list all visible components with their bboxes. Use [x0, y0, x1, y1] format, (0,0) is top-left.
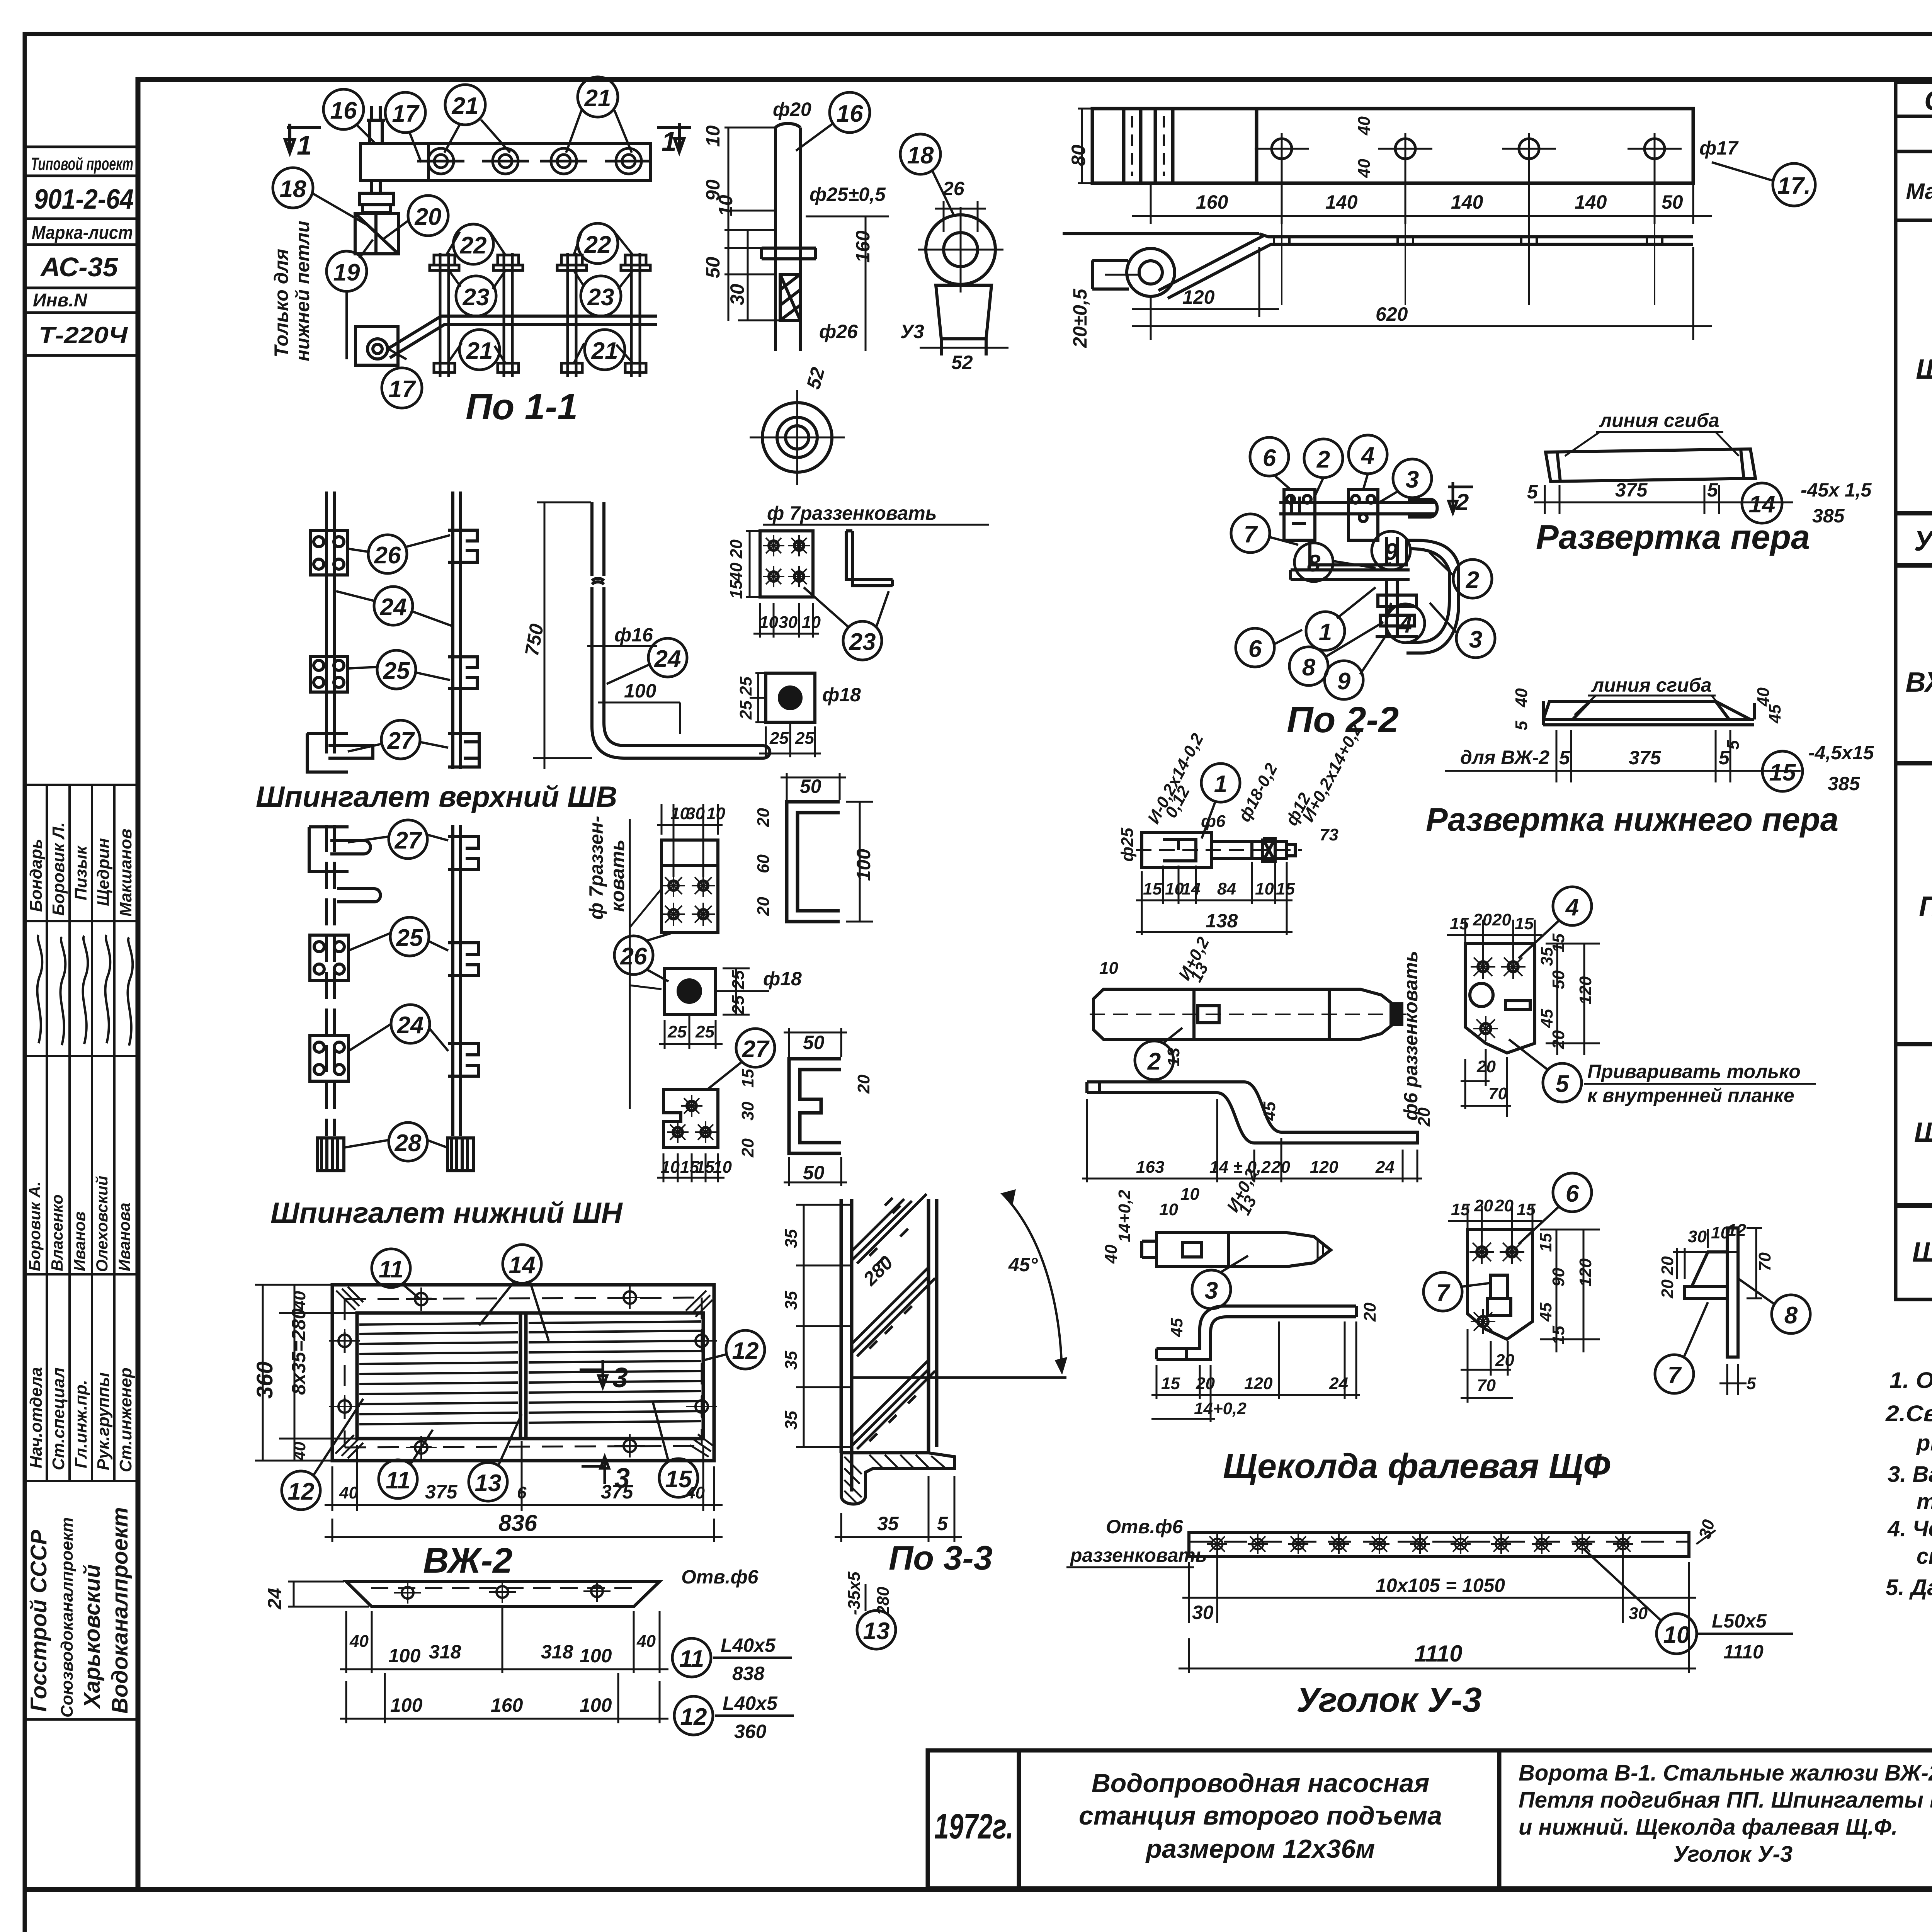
flat bar item 11 below panel — [346, 1582, 660, 1607]
lower hinge assembly — [355, 316, 657, 365]
svg-text:40: 40 — [636, 1632, 656, 1651]
sidebar rotated titles row — [27, 1367, 135, 1472]
svg-text:Спецификация стали на 1 штуку: Спецификация стали на 1 штуку каждой мар… — [1924, 85, 1932, 116]
svg-text:линия сгиба: линия сгиба — [1591, 674, 1712, 696]
section mark 1 right — [657, 123, 691, 152]
svg-text:50: 50 — [803, 1032, 825, 1053]
svg-text:25: 25 — [667, 1022, 687, 1041]
section mark 2 right — [1448, 482, 1473, 513]
svg-text:20: 20 — [1492, 910, 1511, 929]
svg-text:L50х5: L50х5 — [1712, 1610, 1767, 1632]
svg-text:Отв.ф6: Отв.ф6 — [681, 1566, 759, 1588]
ShN E-channel — [789, 1059, 841, 1153]
svg-text:11: 11 — [379, 1256, 403, 1283]
svg-text:Пизык: Пизык — [71, 845, 90, 900]
flat bar dims — [340, 1607, 668, 1723]
left sidebar stamp table — [25, 147, 138, 355]
svg-text:Водоканалпроект: Водоканалпроект — [107, 1507, 133, 1714]
title block grid — [928, 1750, 1932, 1888]
svg-text:5: 5 — [1719, 747, 1730, 769]
po 3-3 left dims — [796, 1205, 852, 1447]
svg-text:раззенковать: раззенковать — [1070, 1544, 1207, 1566]
ShN black dot plate — [665, 968, 769, 1043]
svg-text:120: 120 — [1244, 1374, 1273, 1393]
svg-text:3: 3 — [1205, 1277, 1218, 1304]
svg-text:ВЖ-2: ВЖ-2 — [423, 1541, 512, 1580]
svg-text:45: 45 — [1536, 1303, 1555, 1322]
svg-text:По 3-3: По 3-3 — [889, 1539, 993, 1577]
svg-text:100: 100 — [580, 1645, 612, 1667]
svg-text:1. Отверстия ф 6мм сверлёные,: 1. Отверстия ф 6мм сверлёные, раззенкова… — [1889, 1368, 1932, 1393]
pin and nut below bar — [355, 180, 398, 254]
svg-text:8: 8 — [1302, 654, 1316, 681]
svg-text:20: 20 — [854, 1075, 873, 1094]
svg-text:10х105 = 1050: 10х105 = 1050 — [1376, 1575, 1505, 1596]
svg-text:375: 375 — [1629, 747, 1662, 769]
sidebar rotated signature scribbles — [37, 935, 133, 1046]
750 dim — [533, 502, 592, 769]
svg-text:ШН: ШН — [1912, 1237, 1932, 1268]
svg-text:5: 5 — [1556, 1071, 1570, 1097]
svg-text:620: 620 — [1376, 303, 1408, 325]
svg-text:ф6: ф6 — [1201, 812, 1226, 831]
svg-text:Петля подгибная ПП. Шпингалет: Петля подгибная ПП. Шпингалеты верхний — [1519, 1787, 1932, 1813]
strip slots on side view — [1274, 216, 1662, 305]
dim 120 and 620 — [1132, 247, 1712, 340]
svg-text:25: 25 — [729, 970, 748, 990]
svg-text:12: 12 — [680, 1704, 707, 1730]
svg-text:140: 140 — [1451, 191, 1483, 213]
svg-text:20: 20 — [1196, 1374, 1215, 1393]
po 2-2 lower subassembly — [1291, 537, 1459, 653]
VZh-2 balloons — [282, 1245, 765, 1510]
marka column labels — [1906, 354, 1932, 1268]
svg-text:ковать: ковать — [607, 840, 628, 912]
svg-text:45: 45 — [1260, 1102, 1279, 1121]
svg-text:12: 12 — [732, 1338, 759, 1364]
svg-text:4. Чертеж заимствован из т: 4. Чертеж заимствован из типового проект… — [1887, 1516, 1932, 1541]
pin detail dim lines — [724, 128, 889, 351]
svg-text:14+0,2: 14+0,2 — [1115, 1190, 1134, 1242]
svg-text:45: 45 — [1765, 704, 1784, 724]
razvertka nizhnego pera — [1543, 701, 1754, 725]
svg-text:ВЖ-2: ВЖ-2 — [1906, 667, 1932, 698]
svg-text:360: 360 — [252, 1361, 277, 1399]
svg-text:120: 120 — [1576, 1258, 1595, 1287]
svg-text:15: 15 — [1143, 879, 1162, 898]
svg-text:20±0,5: 20±0,5 — [1069, 288, 1091, 348]
svg-text:1: 1 — [662, 126, 677, 156]
svg-text:40: 40 — [1754, 687, 1773, 707]
VZh-2 louver panel — [332, 1285, 714, 1461]
svg-text:15: 15 — [1769, 759, 1796, 786]
svg-text:140: 140 — [1325, 191, 1358, 213]
ShV latch rods upper — [307, 492, 479, 772]
left sidebar signature block — [25, 785, 138, 1719]
part 2 latch bolt top view — [1090, 989, 1410, 1039]
svg-text:5: 5 — [937, 1513, 948, 1534]
svg-text:40: 40 — [1102, 1245, 1121, 1264]
svg-text:10: 10 — [1180, 1185, 1199, 1204]
svg-text:16: 16 — [837, 100, 863, 127]
svg-text:Уголок У-3: Уголок У-3 — [1673, 1842, 1793, 1867]
svg-text:9: 9 — [1337, 668, 1351, 695]
svg-text:84: 84 — [1217, 879, 1236, 898]
svg-text:17.: 17. — [1777, 173, 1811, 199]
svg-text:45: 45 — [1167, 1318, 1186, 1337]
svg-text:40: 40 — [339, 1483, 358, 1502]
svg-text:ф18: ф18 — [763, 968, 802, 990]
svg-text:ф16: ф16 — [614, 624, 653, 646]
svg-text:80: 80 — [1068, 145, 1089, 166]
svg-text:25: 25 — [769, 729, 789, 748]
svg-text:5: 5 — [1559, 747, 1570, 769]
svg-text:Союзводоканалпроект: Союзводоканалпроект — [58, 1517, 77, 1718]
svg-text:18: 18 — [907, 142, 934, 169]
svg-text:Шпингалет нижний ШН: Шпингалет нижний ШН — [270, 1197, 623, 1230]
svg-text:360: 360 — [734, 1721, 767, 1742]
part 1 rotated labels — [1118, 721, 1366, 862]
svg-text:13: 13 — [475, 1470, 502, 1497]
svg-text:280: 280 — [874, 1587, 893, 1616]
svg-text:Щеколда фалевая ЩФ: Щеколда фалевая ЩФ — [1223, 1447, 1610, 1486]
svg-text:35: 35 — [877, 1513, 899, 1534]
svg-text:8х35=280: 8х35=280 — [288, 1308, 310, 1395]
svg-text:20: 20 — [1658, 1256, 1677, 1276]
svg-text:для ВЖ-2: для ВЖ-2 — [1460, 747, 1549, 768]
svg-text:5: 5 — [1707, 479, 1718, 501]
svg-text:40: 40 — [685, 1483, 705, 1502]
svg-text:120: 120 — [1310, 1158, 1338, 1177]
svg-text:ф6 раззенковать: ф6 раззенковать — [1400, 951, 1422, 1121]
svg-text:30: 30 — [779, 613, 798, 632]
svg-text:318: 318 — [541, 1641, 573, 1663]
svg-text:50: 50 — [800, 776, 821, 797]
svg-text:14: 14 — [1749, 491, 1776, 518]
svg-text:27: 27 — [387, 728, 415, 754]
svg-text:25: 25 — [729, 995, 748, 1015]
svg-text:40: 40 — [1512, 688, 1531, 707]
svg-text:100: 100 — [580, 1694, 612, 1716]
svg-text:73: 73 — [1320, 825, 1338, 844]
po 1-1 balloons — [273, 77, 625, 408]
S-bent bar item 13 upper — [1087, 1082, 1417, 1143]
svg-text:70: 70 — [1488, 1084, 1507, 1103]
svg-text:Боровик Л.: Боровик Л. — [49, 822, 68, 916]
svg-text:21: 21 — [466, 338, 493, 364]
svg-text:ф26: ф26 — [819, 321, 858, 342]
svg-text:Госстрой СССР: Госстрой СССР — [26, 1530, 51, 1712]
svg-text:19: 19 — [333, 259, 360, 286]
po 3-3 louver section — [841, 1199, 937, 1492]
svg-text:23: 23 — [587, 284, 614, 311]
po 2-2 balloons — [1231, 435, 1495, 699]
sidebar rotated names row — [27, 822, 135, 917]
svg-text:Олеховский: Олеховский — [93, 1176, 111, 1272]
hinge assembly По 1-1 : top bar — [361, 106, 650, 180]
svg-text:Рук.группы: Рук.группы — [94, 1372, 113, 1470]
svg-text:21: 21 — [584, 85, 611, 112]
hinge strip side view — [1063, 234, 1693, 298]
svg-text:40: 40 — [1355, 116, 1374, 136]
svg-text:Развертка нижнего пера: Развертка нижнего пера — [1426, 801, 1838, 838]
svg-text:50: 50 — [1549, 970, 1568, 989]
svg-text:Водопроводная насосная: Водопроводная насосная — [1092, 1769, 1430, 1798]
VZh-2 dims — [252, 1291, 310, 1461]
svg-text:Нач.отдела: Нач.отдела — [27, 1367, 46, 1468]
svg-text:ф25: ф25 — [1118, 828, 1137, 862]
svg-text:17: 17 — [389, 376, 416, 403]
balloon 13 with label — [857, 1611, 896, 1649]
svg-text:9: 9 — [1384, 539, 1398, 565]
pin detail phi20 — [762, 124, 816, 352]
svg-text:160: 160 — [1196, 191, 1228, 213]
svg-text:Щедрин: Щедрин — [94, 838, 113, 906]
svg-text:100: 100 — [624, 680, 656, 702]
svg-text:26: 26 — [620, 943, 647, 970]
svg-text:27: 27 — [742, 1036, 770, 1063]
svg-text:23: 23 — [849, 629, 876, 655]
svg-text:20: 20 — [727, 539, 746, 559]
svg-text:АС-35: АС-35 — [40, 252, 118, 282]
svg-text:ф17: ф17 — [1699, 137, 1739, 159]
svg-text:836: 836 — [498, 1510, 537, 1536]
svg-text:20: 20 — [415, 204, 442, 230]
svg-text:20: 20 — [738, 1138, 757, 1158]
svg-text:6: 6 — [1566, 1180, 1579, 1207]
svg-text:25: 25 — [396, 925, 423, 951]
svg-text:45°: 45° — [1008, 1254, 1038, 1276]
svg-text:30: 30 — [686, 804, 705, 823]
svg-text:2: 2 — [1466, 567, 1479, 594]
svg-text:10: 10 — [1255, 879, 1274, 898]
top bar bolts — [417, 148, 652, 174]
razvertka pera dims — [1534, 485, 1793, 514]
L-rod detail 750 — [592, 502, 770, 758]
svg-text:ф25±0,5: ф25±0,5 — [810, 184, 886, 205]
svg-text:-35х5: -35х5 — [845, 1571, 864, 1615]
svg-text:2: 2 — [1316, 446, 1330, 473]
svg-text:1972г.: 1972г. — [934, 1807, 1014, 1846]
svg-text:7: 7 — [1668, 1362, 1682, 1389]
svg-text:5: 5 — [1747, 1374, 1756, 1393]
svg-text:35: 35 — [782, 1351, 801, 1370]
svg-text:25: 25 — [736, 701, 755, 720]
Ugolok U-3 bar — [1189, 1532, 1689, 1556]
svg-text:15: 15 — [727, 580, 746, 599]
svg-text:8: 8 — [1307, 550, 1321, 577]
svg-text:318: 318 — [429, 1641, 461, 1663]
svg-text:70: 70 — [1755, 1252, 1774, 1271]
svg-text:10: 10 — [715, 195, 736, 216]
sidebar rotated names row2 — [26, 1176, 133, 1272]
svg-text:4: 4 — [1565, 894, 1579, 921]
svg-text:23: 23 — [463, 284, 490, 311]
pin bottom view concentric — [750, 390, 845, 485]
svg-text:24: 24 — [397, 1012, 424, 1039]
svg-text:375: 375 — [601, 1481, 634, 1503]
svg-text:22: 22 — [460, 232, 487, 259]
S-bent bar lower — [1156, 1306, 1356, 1359]
svg-text:60: 60 — [754, 854, 773, 873]
svg-text:Уголок У-3: Уголок У-3 — [1296, 1681, 1482, 1719]
ShN plate with holes — [662, 840, 718, 933]
svg-text:16: 16 — [330, 97, 357, 124]
ShV angle bracket detail — [846, 531, 893, 586]
svg-text:90: 90 — [1549, 1268, 1568, 1287]
balloon 16 pin — [830, 92, 870, 133]
bottom angle hatched — [841, 1453, 954, 1504]
part 3 pointed latch — [1142, 1233, 1331, 1267]
svg-text:385: 385 — [1812, 505, 1845, 527]
svg-text:25: 25 — [383, 658, 410, 684]
svg-text:375: 375 — [1615, 479, 1648, 501]
svg-text:20: 20 — [1549, 1030, 1568, 1049]
ShV C-channel — [787, 802, 840, 922]
louver slats — [359, 1321, 701, 1424]
section marks 3 — [580, 1360, 609, 1484]
svg-text:L40х5: L40х5 — [723, 1692, 778, 1714]
po 2-2 top subassembly — [1279, 490, 1437, 540]
svg-text:Гл.инж.пр.: Гл.инж.пр. — [71, 1380, 90, 1468]
section mark 1 left — [285, 124, 321, 153]
svg-text:3: 3 — [1469, 626, 1482, 653]
svg-text:Ст.специал: Ст.специал — [49, 1367, 68, 1470]
svg-text:52: 52 — [951, 352, 973, 373]
svg-text:70: 70 — [1477, 1376, 1496, 1395]
svg-text:1: 1 — [1319, 619, 1332, 646]
svg-text:14: 14 — [1182, 879, 1201, 898]
svg-text:120: 120 — [1182, 286, 1215, 308]
svg-text:100: 100 — [388, 1645, 421, 1667]
svg-text:35: 35 — [782, 1291, 801, 1310]
notes text — [1885, 1368, 1932, 1600]
svg-text:1110: 1110 — [1414, 1641, 1463, 1667]
svg-text:5. Данный лист рассматривать: 5. Данный лист рассматривать совместно с… — [1886, 1575, 1932, 1600]
svg-text:У-3: У-3 — [1914, 526, 1932, 557]
hinge strip top view — [1092, 109, 1693, 183]
svg-text:ЩФ: ЩФ — [1916, 354, 1932, 385]
left rod — [327, 492, 334, 753]
part 1 dims below — [1136, 862, 1293, 935]
svg-text:3: 3 — [612, 1362, 628, 1393]
svg-text:901-2-64: 901-2-64 — [34, 184, 134, 215]
svg-text:Иванов: Иванов — [70, 1211, 88, 1271]
svg-text:20: 20 — [1658, 1279, 1677, 1299]
dims for ShV plate — [727, 539, 821, 632]
svg-text:2: 2 — [1147, 1048, 1161, 1075]
svg-text:15: 15 — [1549, 1326, 1568, 1345]
svg-text:и нижний. Щеколда фалевая: и нижний. Щеколда фалевая Щ.Ф. — [1519, 1815, 1898, 1840]
svg-text:40: 40 — [349, 1632, 369, 1651]
svg-text:100: 100 — [853, 849, 874, 881]
svg-text:11: 11 — [679, 1646, 704, 1672]
svg-text:20: 20 — [754, 897, 773, 916]
svg-text:2.Сварные швы толщиной 5мм: 2.Сварные швы толщиной 5мм за исключение… — [1885, 1401, 1932, 1426]
svg-text:21: 21 — [591, 338, 618, 364]
sidebar stamp texts — [31, 154, 134, 348]
svg-text:-4,5х15: -4,5х15 — [1808, 742, 1874, 764]
svg-text:17: 17 — [392, 100, 420, 127]
svg-text:3. Варить тонким электродом,: 3. Варить тонким электродом, соблюдая ре… — [1888, 1462, 1932, 1487]
svg-text:14+0,2: 14+0,2 — [1194, 1399, 1247, 1418]
svg-text:10: 10 — [802, 613, 821, 632]
svg-text:4: 4 — [1361, 442, 1374, 469]
angle bracket detail balloons 7,8 — [1685, 1228, 1738, 1357]
svg-text:Только для: Только для — [270, 249, 292, 357]
svg-text:Приваривать только: Приваривать только — [1587, 1061, 1801, 1082]
svg-text:Боровик А.: Боровик А. — [26, 1181, 44, 1271]
svg-text:1: 1 — [297, 130, 312, 160]
svg-text:У3: У3 — [900, 321, 924, 342]
svg-text:40: 40 — [290, 1291, 309, 1310]
svg-text:10: 10 — [702, 125, 724, 147]
svg-text:375: 375 — [425, 1481, 458, 1503]
svg-text:40: 40 — [727, 563, 746, 582]
svg-text:40: 40 — [1355, 159, 1374, 178]
svg-text:Т-220Ч: Т-220Ч — [39, 322, 128, 348]
svg-text:35: 35 — [782, 1229, 801, 1248]
right rod — [453, 492, 461, 769]
svg-text:линия сгиба: линия сгиба — [1599, 410, 1719, 431]
svg-text:стройпроекта 1961г. Серия П-20: стройпроекта 1961г. Серия П-200, выпуск … — [1917, 1544, 1932, 1569]
svg-text:13: 13 — [1164, 1048, 1183, 1066]
washer detail 18 — [918, 207, 1003, 355]
svg-text:12: 12 — [288, 1478, 315, 1505]
svg-text:5: 5 — [1512, 721, 1531, 730]
svg-text:100: 100 — [390, 1694, 423, 1716]
svg-text:26: 26 — [942, 178, 965, 199]
svg-text:30: 30 — [1192, 1602, 1214, 1623]
svg-text:10: 10 — [1159, 1200, 1178, 1219]
svg-text:45: 45 — [1537, 1009, 1556, 1028]
svg-text:-45х 1,5: -45х 1,5 — [1801, 479, 1872, 501]
specification table grid — [1896, 82, 1932, 1299]
svg-text:10: 10 — [1099, 959, 1118, 978]
svg-text:24: 24 — [654, 646, 681, 672]
45 deg arc — [852, 1191, 1066, 1378]
svg-text:Ворота В-1. Стальные жалюз: Ворота В-1. Стальные жалюзи ВЖ-2, — [1519, 1760, 1932, 1786]
svg-text:15: 15 — [1515, 914, 1534, 933]
ShN feet item 28 — [318, 1138, 474, 1171]
svg-text:ф18: ф18 — [822, 684, 861, 706]
part 1 pin of ShchF — [1136, 833, 1302, 867]
svg-text:ф 7раззенковать: ф 7раззенковать — [767, 502, 937, 524]
svg-text:15: 15 — [738, 1069, 757, 1088]
svg-text:Отв.ф6: Отв.ф6 — [1106, 1516, 1184, 1537]
svg-text:Инв.N: Инв.N — [33, 290, 88, 311]
svg-text:25: 25 — [795, 729, 814, 748]
diagonal slats — [852, 1194, 935, 1449]
svg-text:15: 15 — [1536, 1233, 1555, 1252]
svg-text:Макшанов: Макшанов — [116, 828, 135, 917]
svg-text:140: 140 — [1575, 191, 1607, 213]
svg-text:7: 7 — [1244, 521, 1258, 548]
lower hinge bolts — [430, 253, 650, 377]
corner hatching — [335, 1287, 713, 1458]
sidebar org rotated text — [26, 1507, 133, 1718]
svg-text:22: 22 — [584, 231, 611, 258]
svg-text:6: 6 — [1263, 445, 1276, 471]
svg-text:4: 4 — [1398, 611, 1412, 638]
svg-text:20: 20 — [1494, 1196, 1514, 1215]
svg-text:20: 20 — [1474, 1196, 1493, 1215]
svg-text:838: 838 — [732, 1663, 765, 1684]
svg-text:30: 30 — [726, 284, 748, 305]
svg-text:24: 24 — [264, 1588, 286, 1610]
ShN latch rods lower — [309, 825, 478, 1136]
svg-text:6: 6 — [1248, 636, 1262, 662]
